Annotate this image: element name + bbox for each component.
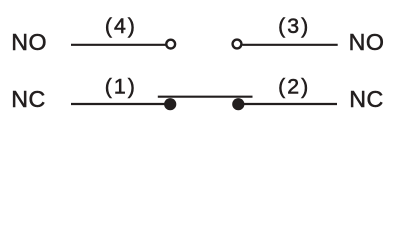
wire: NC right lead (pin 2) (241, 103, 337, 105)
NC moving contact bridge bar (158, 96, 253, 98)
NO fixed contact: open circle terminal 3 (233, 40, 242, 49)
svg-text:(1): (1) (105, 74, 137, 98)
wire: NO left lead (pin 4) (71, 44, 166, 46)
svg-text:NC: NC (349, 86, 384, 112)
svg-text:NO: NO (349, 29, 385, 55)
svg-text:NO: NO (11, 29, 47, 55)
svg-text:(2): (2) (278, 74, 310, 98)
svg-text:(4): (4) (105, 14, 137, 38)
NC fixed contact: filled dot terminal 2 (232, 98, 244, 110)
wire: NO right lead (pin 3) (242, 44, 337, 46)
svg-text:(3): (3) (278, 14, 310, 38)
svg-text:NC: NC (11, 86, 46, 112)
NO fixed contact: open circle terminal 4 (166, 40, 175, 49)
wire: NC left lead (pin 1) (71, 103, 167, 105)
NC fixed contact: filled dot terminal 1 (164, 98, 176, 110)
